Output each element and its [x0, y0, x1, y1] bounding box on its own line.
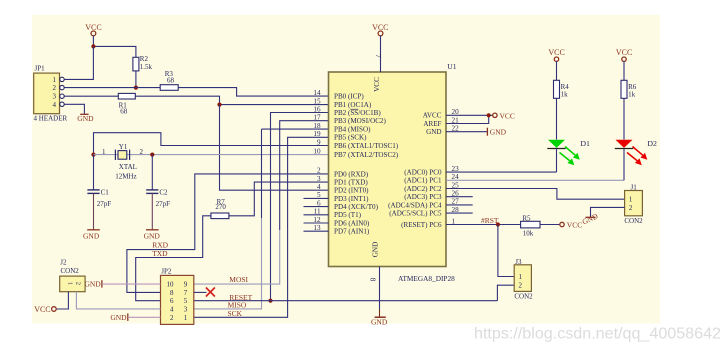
- capacitor C2: [146, 189, 170, 208]
- wire R1 to junction and pin15 row: [135, 96, 328, 104]
- svg-text:TXD: TXD: [152, 249, 168, 258]
- junction RESET: [268, 299, 272, 303]
- svg-text:AVCC: AVCC: [423, 112, 442, 120]
- wire R6 to D2: [623, 98, 625, 139]
- svg-text:PB1 (OC1A): PB1 (OC1A): [334, 101, 372, 109]
- wire GND to JP2.10: [102, 283, 161, 285]
- ground U1 pin22: [487, 127, 506, 136]
- no-connect X on JP2.7: [206, 288, 215, 297]
- wire U1 pin12 stub: [304, 222, 329, 224]
- resistor R6: [621, 80, 637, 98]
- svg-text:1.5k: 1.5k: [140, 63, 153, 71]
- wire U1 pin21 AREF up: [446, 115, 489, 123]
- junction R2/JP1.2: [134, 86, 138, 90]
- wire junction down to pin4 row: [220, 105, 329, 191]
- svg-text:18: 18: [313, 122, 321, 130]
- pin circle JP1.2: [60, 85, 64, 89]
- svg-text:1: 1: [66, 282, 73, 285]
- junction VCC/JP1.1: [91, 44, 95, 48]
- svg-text:GND: GND: [426, 128, 441, 136]
- wire J3.2 to RESET row: [497, 285, 514, 301]
- svg-text:68: 68: [167, 76, 175, 84]
- junction XTAL right: [150, 153, 154, 157]
- svg-text:PD0 (RXD): PD0 (RXD): [334, 170, 369, 178]
- junction XTAL left: [91, 153, 95, 157]
- svg-text:2: 2: [518, 282, 522, 290]
- power VCC J2: [34, 305, 56, 314]
- LED D2: [615, 140, 648, 166]
- wire VCC to R2 top: [93, 36, 135, 58]
- U1 left pin labels PD: [334, 170, 379, 235]
- svg-text:2: 2: [317, 167, 321, 175]
- svg-text:D2: D2: [647, 139, 657, 148]
- svg-text:GND: GND: [110, 313, 127, 322]
- wire RST junction to J3.1: [498, 225, 514, 277]
- resistor R7: [211, 198, 229, 219]
- svg-text:CON2: CON2: [624, 217, 643, 225]
- svg-text:PD5 (T1): PD5 (T1): [334, 211, 362, 219]
- svg-text:https://blog.csdn.net/qq_40058: https://blog.csdn.net/qq_40058642: [474, 324, 721, 342]
- svg-text:D1: D1: [580, 139, 590, 148]
- svg-text:C2: C2: [159, 189, 168, 197]
- wire VCC to U1 pin7: [380, 36, 382, 72]
- wire R7 to TXD label row to JP2.6: [136, 216, 211, 301]
- wire J1.2 to GND: [591, 207, 625, 217]
- svg-text:Y1: Y1: [119, 143, 128, 151]
- wire C1 to GND: [93, 193, 95, 229]
- svg-text:MOSI: MOSI: [229, 275, 248, 284]
- svg-text:(ADC2) PC2: (ADC2) PC2: [404, 185, 442, 193]
- schematic canvas background: [32, 15, 660, 324]
- svg-text:10: 10: [313, 147, 321, 155]
- junction R1/pin15: [217, 103, 221, 107]
- svg-text:GND: GND: [371, 318, 388, 327]
- wire U1 pin6 stub: [304, 206, 329, 208]
- resistor R4: [554, 80, 570, 98]
- wire U1 pin22 to GND: [446, 131, 487, 133]
- wire R2 bottom to pin2 row: [135, 71, 137, 88]
- svg-text:7: 7: [184, 289, 188, 297]
- svg-text:10: 10: [167, 281, 175, 289]
- connector J1: [624, 183, 643, 225]
- svg-text:2: 2: [170, 314, 174, 322]
- wire U1 pin26 stub: [446, 196, 473, 198]
- svg-text:PD1 (TXD): PD1 (TXD): [334, 179, 368, 187]
- svg-text:GND: GND: [83, 231, 100, 240]
- power VCC above D2: [616, 48, 632, 62]
- resistor R2: [133, 55, 153, 71]
- wire JP1.1 to VCC junction: [64, 46, 93, 79]
- wire D2 to pin24 row: [623, 149, 625, 181]
- svg-text:4: 4: [170, 305, 174, 313]
- svg-text:9: 9: [184, 281, 188, 289]
- wire U1 pin23 to D1: [446, 171, 557, 173]
- svg-text:1: 1: [184, 314, 188, 322]
- wire XTAL to C1: [93, 155, 95, 190]
- wire R5 to VCC: [540, 224, 560, 226]
- svg-text:10k: 10k: [523, 229, 534, 237]
- wire C2 to GND: [151, 193, 153, 229]
- wire JP2.7 no-connect stub: [194, 291, 207, 293]
- wire U1 pin24 to D2: [446, 179, 624, 181]
- wire JP1.2 to R3: [64, 87, 160, 89]
- wire U1 pin20 AVCC to VCC: [446, 114, 493, 116]
- svg-text:270: 270: [215, 203, 226, 211]
- svg-text:2: 2: [139, 148, 143, 156]
- connector JP2: [161, 268, 194, 325]
- svg-text:68: 68: [120, 108, 128, 116]
- op IC U1 ATMEGA8_DIP28 body: [329, 62, 457, 283]
- svg-text:1: 1: [53, 76, 57, 84]
- svg-text:ATMEGA8_DIP28: ATMEGA8_DIP28: [398, 274, 455, 283]
- wire J2.2 to JP2.4: [76, 292, 160, 309]
- connector J2: [60, 258, 85, 291]
- ground JP2.10: [84, 280, 101, 289]
- svg-text:3: 3: [53, 93, 57, 101]
- resistor R1: [118, 93, 135, 115]
- ground JP1.4: [77, 114, 94, 123]
- U1 left pin labels PB: [334, 93, 399, 160]
- wire GND to JP2.2: [128, 316, 161, 318]
- wire crystal row to chip pin10: [94, 154, 329, 156]
- wire U1 pin13 stub: [304, 230, 329, 232]
- svg-text:(ADC4/SDA) PC4: (ADC4/SDA) PC4: [388, 201, 442, 209]
- svg-text:CON2: CON2: [514, 293, 533, 301]
- svg-text:PB5 (SCK): PB5 (SCK): [334, 134, 367, 142]
- wire J2.1 to VCC: [56, 292, 68, 309]
- svg-text:27pF: 27pF: [156, 200, 171, 208]
- LED D1: [547, 140, 580, 166]
- wire JP1.3 to R1: [64, 95, 118, 97]
- ground U1 pin8: [371, 317, 388, 326]
- resistor R5: [521, 214, 540, 237]
- svg-text:7: 7: [374, 54, 383, 58]
- svg-text:JP2: JP2: [161, 268, 172, 276]
- wire U1 pin28 stub: [446, 212, 473, 214]
- power VCC above D1: [548, 48, 564, 62]
- svg-text:PD7 (AIN1): PD7 (AIN1): [334, 228, 370, 236]
- U1 right pin labels: [388, 112, 442, 229]
- connector JP1: [34, 65, 68, 123]
- svg-text:4: 4: [53, 101, 57, 109]
- wire MISO net chip pin18 to JP2.3: [262, 128, 329, 130]
- svg-text:1k: 1k: [561, 91, 569, 99]
- wire RESET net chip pin16 down: [271, 113, 329, 301]
- wire U1 pin25 to J1.1: [446, 189, 625, 200]
- wire R3 to chip pin14: [178, 88, 328, 97]
- svg-text:PB7 (XTAL2/TOSC2): PB7 (XTAL2/TOSC2): [334, 151, 399, 159]
- wire U1 pin8 to GND: [379, 267, 381, 310]
- svg-text:27pF: 27pF: [97, 200, 112, 208]
- svg-text:3: 3: [317, 175, 321, 183]
- resistor R3: [160, 70, 178, 90]
- wire RXD net chip pin2 to JP2.8: [127, 174, 329, 293]
- power VCC right of R5: [560, 221, 582, 230]
- wire XTAL1 jog to chip pin9: [94, 133, 329, 155]
- svg-text:(ADC5/SCL) PC5: (ADC5/SCL) PC5: [389, 210, 442, 218]
- svg-text:3: 3: [184, 305, 188, 313]
- U1 left pin numbers: [313, 89, 321, 232]
- pin circle JP1.4: [60, 102, 64, 106]
- ground J1.2 rotated: [581, 211, 600, 226]
- svg-text:VCC: VCC: [616, 48, 632, 57]
- svg-text:12MHz: 12MHz: [115, 172, 136, 180]
- wire XTAL to C2: [151, 155, 153, 190]
- capacitor C1: [87, 189, 111, 208]
- svg-text:17: 17: [313, 114, 321, 122]
- ground JP2.2: [110, 313, 127, 322]
- svg-text:1k: 1k: [628, 91, 636, 99]
- svg-text:XTAL: XTAL: [119, 163, 137, 171]
- svg-text:VCC: VCC: [500, 111, 515, 120]
- svg-text:PB4 (MISO): PB4 (MISO): [334, 126, 371, 134]
- ground C1: [83, 230, 100, 241]
- svg-text:VCC: VCC: [567, 221, 582, 230]
- svg-text:1: 1: [518, 273, 522, 281]
- svg-text:R2: R2: [140, 55, 149, 63]
- wire MOSI vertical lower to JP2.9: [194, 230, 280, 284]
- svg-text:4 HEADER: 4 HEADER: [34, 115, 68, 123]
- connector J3: [514, 258, 533, 301]
- svg-text:U1: U1: [447, 62, 456, 71]
- svg-text:VCC: VCC: [548, 48, 564, 57]
- ground C2: [144, 230, 161, 241]
- svg-text:2: 2: [53, 84, 57, 92]
- svg-text:JP1: JP1: [35, 65, 46, 73]
- pin circle JP1.3: [60, 94, 64, 98]
- wire TXD net chip pin3 to R7: [229, 182, 329, 216]
- svg-text:PD3 (INT1): PD3 (INT1): [334, 195, 369, 203]
- svg-text:(ADC0) PC0: (ADC0) PC0: [404, 169, 442, 177]
- wire MISO vertical lower to JP2.3: [194, 218, 262, 309]
- wire MOSI net chip pin17 upper: [280, 121, 329, 230]
- wire VCC to R4: [556, 61, 558, 80]
- wire U1 pin5 stub: [304, 197, 329, 199]
- svg-text:PB0 (ICP): PB0 (ICP): [334, 93, 364, 101]
- power VCC above U1 pin7: [372, 23, 388, 36]
- wire U1 pin1 to R5: [446, 224, 521, 226]
- svg-text:SCK: SCK: [228, 309, 243, 318]
- svg-text:2: 2: [629, 204, 633, 212]
- svg-text:CON2: CON2: [61, 267, 80, 275]
- svg-text:PB2 (SS/OC1B): PB2 (SS/OC1B): [334, 109, 381, 117]
- svg-text:GND: GND: [372, 242, 380, 258]
- svg-text:1: 1: [102, 148, 106, 156]
- svg-text:GND: GND: [144, 231, 161, 240]
- wire SCK net chip pin19 to JP2.1: [194, 137, 329, 317]
- wire MISO vertical upper: [261, 129, 263, 218]
- wire JP1.4 to GND: [64, 104, 84, 114]
- svg-text:(RESET) PC6: (RESET) PC6: [401, 221, 442, 229]
- svg-text:VCC: VCC: [34, 305, 50, 314]
- pin circle JP1.1: [60, 77, 64, 81]
- svg-text:C1: C1: [101, 189, 110, 197]
- svg-text:GND: GND: [77, 114, 94, 123]
- svg-text:9: 9: [317, 138, 321, 146]
- svg-text:4: 4: [317, 183, 321, 191]
- wire VCC to R6: [623, 61, 625, 80]
- svg-text:AREF: AREF: [423, 120, 441, 128]
- svg-text:RESET: RESET: [229, 293, 252, 302]
- wire D1 to pin23 row: [556, 149, 558, 173]
- svg-text:2: 2: [74, 282, 81, 285]
- wire U1 pin27 stub: [446, 204, 473, 206]
- svg-text:6: 6: [170, 297, 174, 305]
- svg-text:5: 5: [184, 297, 188, 305]
- svg-text:(ADC3) PC3: (ADC3) PC3: [404, 193, 442, 201]
- svg-text:19: 19: [313, 130, 321, 138]
- power VCC right of U1: [493, 111, 515, 120]
- svg-text:J2: J2: [60, 258, 67, 266]
- svg-text:PD2 (INT0): PD2 (INT0): [334, 187, 369, 195]
- svg-text:8: 8: [170, 289, 174, 297]
- svg-text:PD4 (XCK/T0): PD4 (XCK/T0): [334, 203, 379, 211]
- svg-text:VCC: VCC: [373, 77, 381, 92]
- svg-text:GND: GND: [490, 127, 507, 136]
- svg-text:16: 16: [313, 105, 321, 113]
- svg-text:(ADC1) PC1: (ADC1) PC1: [404, 177, 442, 185]
- svg-text:GND: GND: [84, 280, 101, 289]
- svg-text:PD6 (AIN0): PD6 (AIN0): [334, 219, 370, 227]
- svg-text:8: 8: [369, 278, 378, 282]
- svg-text:PB6 (XTAL1/TOSC1): PB6 (XTAL1/TOSC1): [334, 142, 399, 150]
- svg-text:PB3 (MOSI/OC2): PB3 (MOSI/OC2): [334, 117, 386, 125]
- U1 right pin numbers: [452, 108, 460, 225]
- svg-text:15: 15: [313, 97, 321, 105]
- junction RST: [496, 222, 500, 226]
- wire R4 to D1: [556, 98, 558, 139]
- junction AVCC/AREF: [487, 113, 491, 117]
- wire U1 pin11 stub: [304, 214, 329, 216]
- svg-text:1: 1: [629, 196, 633, 204]
- crystal Y1: [102, 143, 143, 181]
- svg-text:14: 14: [313, 89, 321, 97]
- wire RESET row JP2.5 to J3: [194, 300, 498, 302]
- power VCC top-left: [85, 23, 101, 36]
